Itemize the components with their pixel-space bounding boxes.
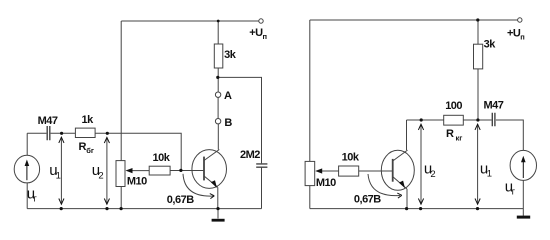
svg-text:+U: +U xyxy=(249,27,263,39)
svg-text:M47: M47 xyxy=(38,115,58,127)
svg-text:кг: кг xyxy=(456,134,463,143)
svg-text:1: 1 xyxy=(487,169,492,180)
svg-text:1k: 1k xyxy=(82,114,95,126)
svg-text:M10: M10 xyxy=(127,176,147,188)
svg-text:+U: +U xyxy=(507,28,521,40)
svg-text:г: г xyxy=(33,194,37,205)
svg-text:п: п xyxy=(520,33,525,42)
svg-text:R: R xyxy=(79,141,87,153)
svg-text:1: 1 xyxy=(56,171,61,182)
svg-text:M47: M47 xyxy=(484,100,504,112)
svg-text:0,67В: 0,67В xyxy=(167,194,194,206)
svg-text:2: 2 xyxy=(430,169,435,180)
svg-text:10k: 10k xyxy=(153,152,171,164)
svg-text:г: г xyxy=(512,187,516,198)
svg-text:бг: бг xyxy=(86,146,94,155)
svg-text:2M2: 2M2 xyxy=(240,149,260,161)
svg-text:A: A xyxy=(224,90,232,102)
svg-text:3k: 3k xyxy=(484,39,497,51)
svg-text:B: B xyxy=(224,117,232,129)
svg-text:100: 100 xyxy=(445,100,462,112)
svg-text:2: 2 xyxy=(98,171,103,182)
svg-text:3k: 3k xyxy=(224,49,237,61)
svg-text:R: R xyxy=(446,128,454,140)
svg-text:M10: M10 xyxy=(316,177,336,189)
svg-text:0,67В: 0,67В xyxy=(354,194,381,206)
svg-text:10k: 10k xyxy=(342,152,360,164)
svg-text:п: п xyxy=(263,32,268,41)
